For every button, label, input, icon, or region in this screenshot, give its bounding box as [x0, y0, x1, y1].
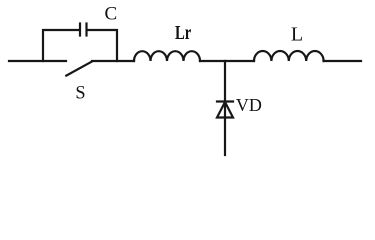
svg-text:VD: VD: [236, 95, 262, 115]
svg-text:Lr: Lr: [175, 22, 191, 44]
svg-text:L: L: [291, 24, 303, 46]
svg-text:S: S: [75, 83, 85, 104]
svg-text:C: C: [105, 4, 118, 25]
